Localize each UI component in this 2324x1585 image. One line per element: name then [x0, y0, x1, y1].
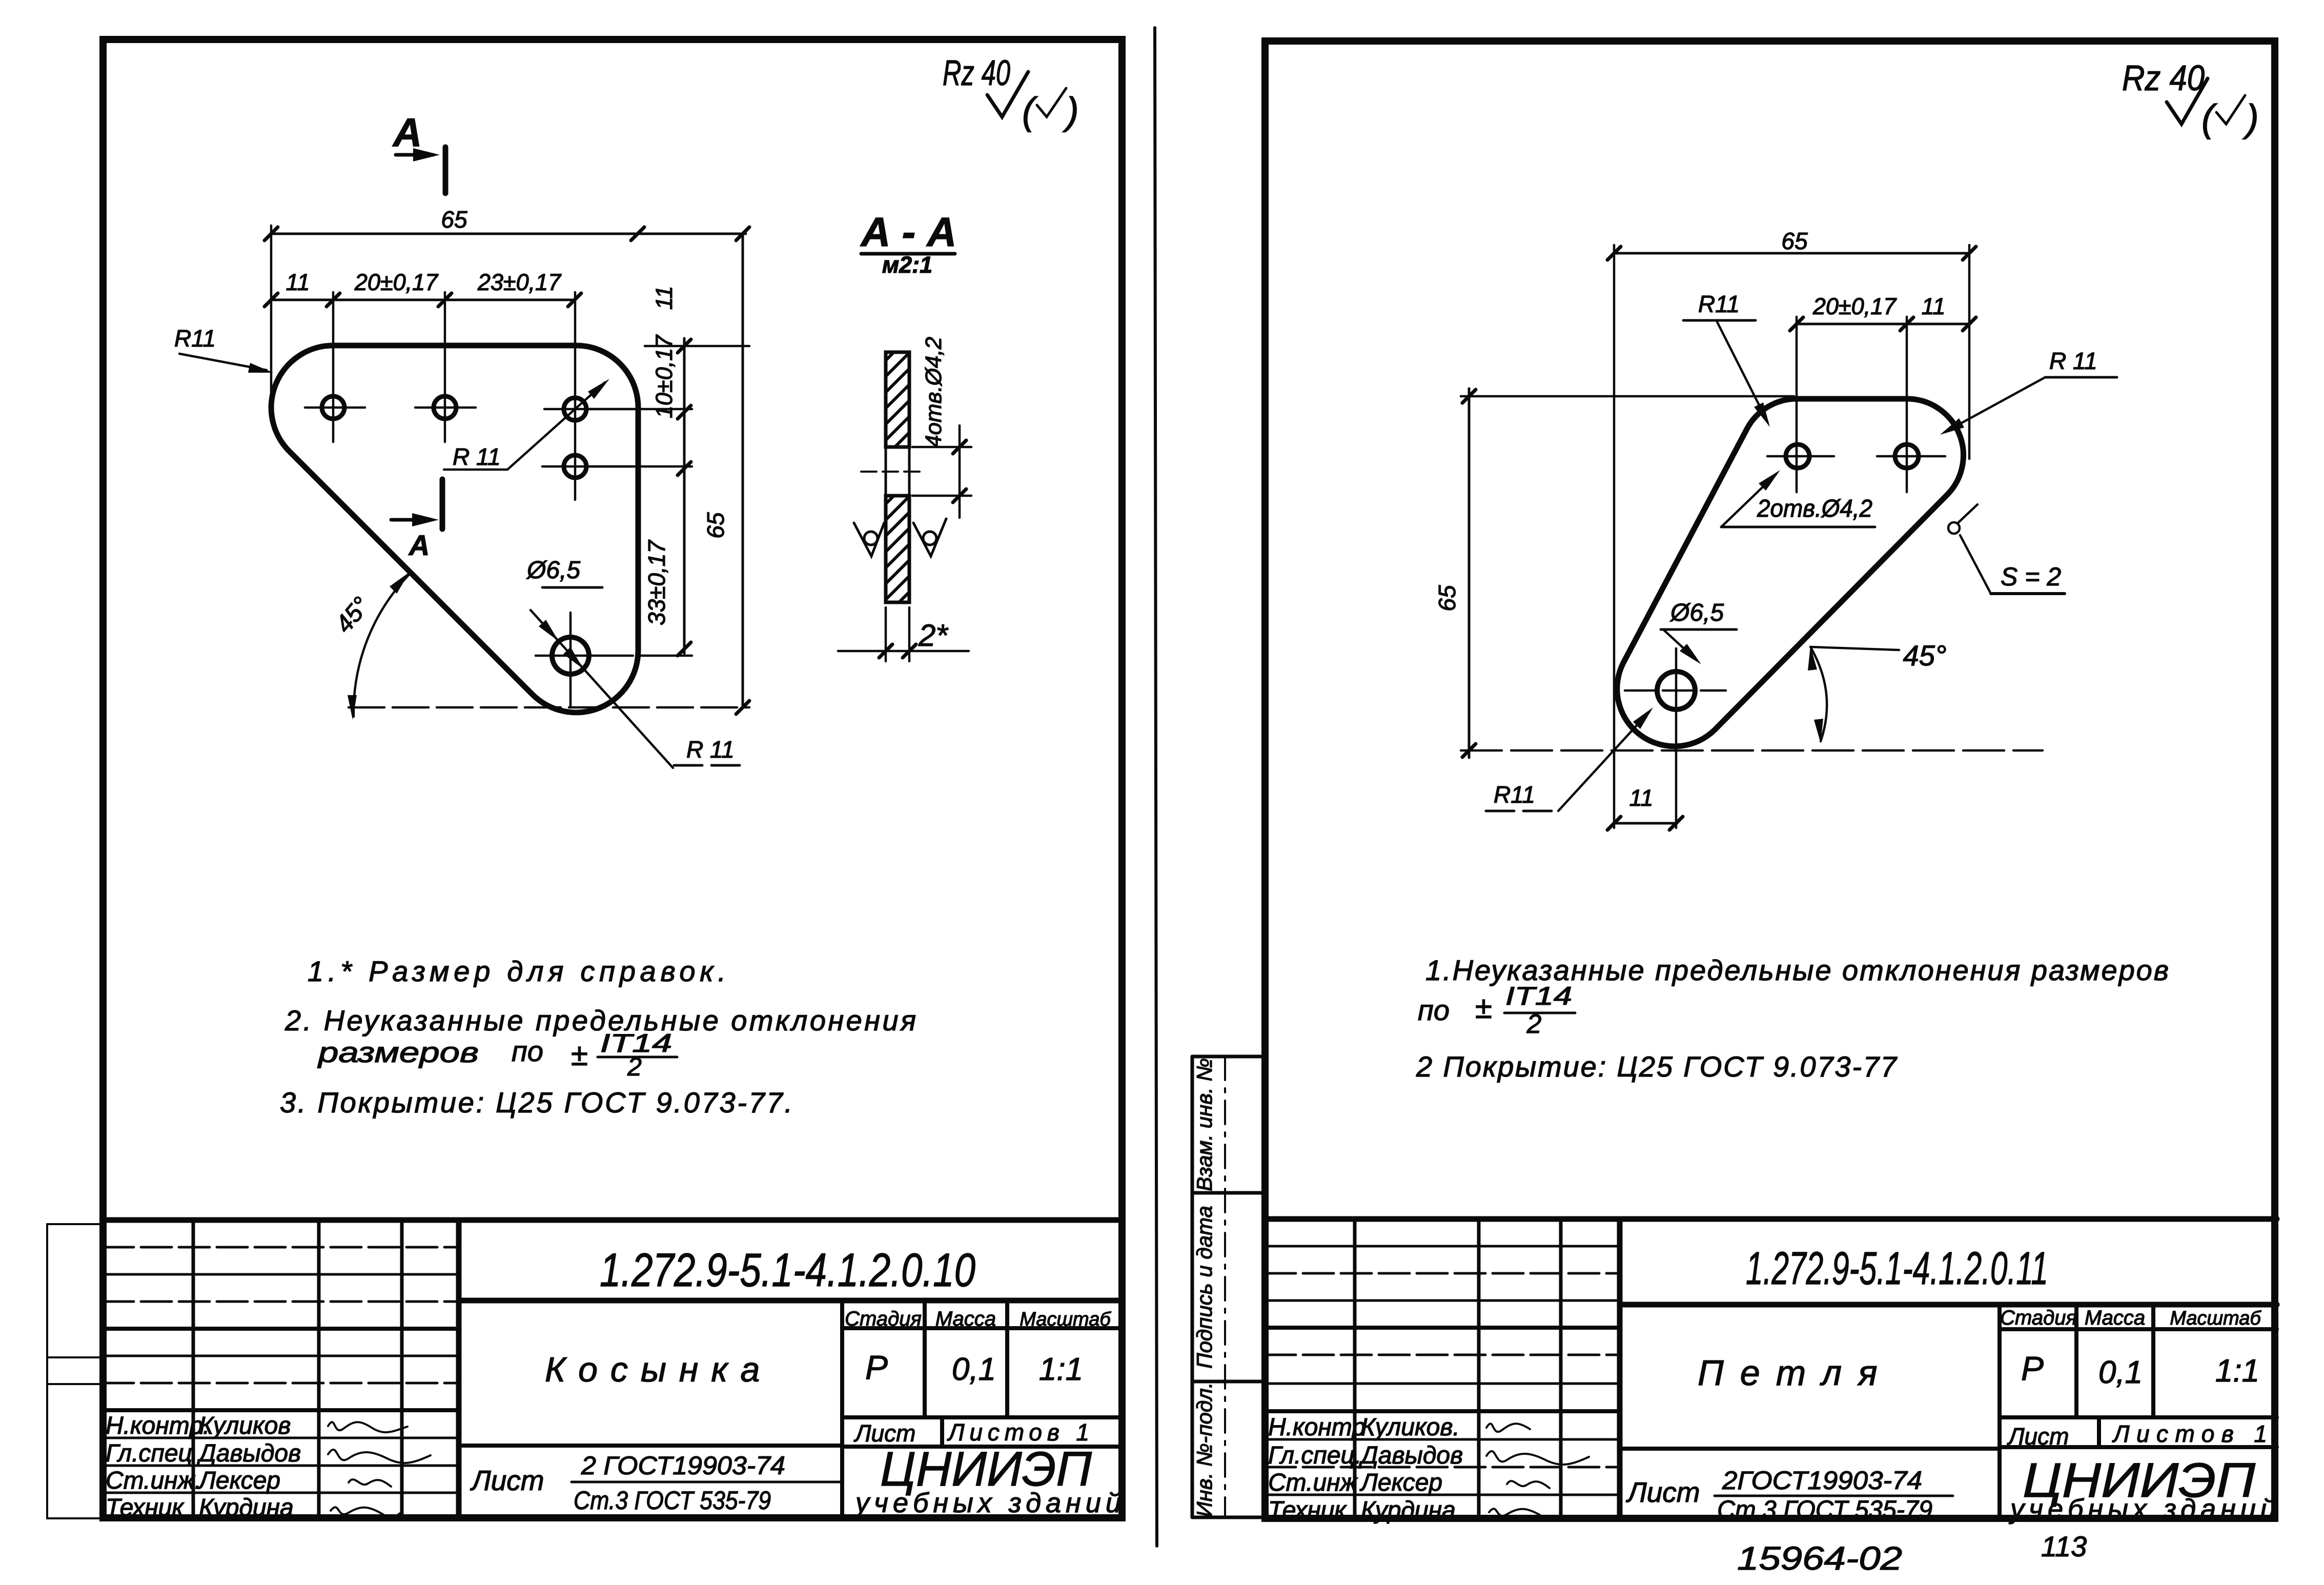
svg-text:2: 2 — [1526, 1009, 1542, 1039]
right vertical dim line 11/10/33 — [678, 338, 691, 656]
svg-text:Курдина: Курдина — [199, 1494, 294, 1521]
sheet 2 side stamp boxes — [1192, 1056, 1262, 1517]
sheet 2 leader dia 6.5 — [1664, 631, 1697, 660]
section arrow A bottom — [391, 479, 442, 529]
hinge holes centerlines — [1625, 456, 1945, 828]
svg-text:Масштаб: Масштаб — [1020, 1309, 1111, 1330]
sheet 1 signature 1 — [328, 1422, 407, 1432]
sheet 2 designation cell bottom line — [1620, 1302, 2277, 1308]
svg-text:±: ± — [1475, 990, 1492, 1025]
right vertical dim 65 line — [736, 227, 749, 714]
svg-text:Ст.3 ГОСТ 535-79: Ст.3 ГОСТ 535-79 — [1717, 1495, 1932, 1524]
dim row 11 20 23: dimension line — [264, 293, 581, 307]
svg-text:2 ГОСТ19903-74: 2 ГОСТ19903-74 — [581, 1451, 785, 1480]
svg-text:113: 113 — [2041, 1530, 2087, 1562]
check mark big sheet 1 — [987, 72, 1028, 117]
svg-text:Р: Р — [2021, 1349, 2044, 1387]
sheet 1 stadia/massa/masshtab cells — [459, 1300, 1122, 1518]
thickness 2* dim ext lines — [838, 607, 969, 661]
svg-text:Лист: Лист — [470, 1465, 544, 1496]
svg-text:Н.контр: Н.контр — [1268, 1414, 1365, 1441]
check mark big sheet 2 — [2167, 78, 2208, 124]
svg-text:Ст.3 ГОСТ 535-79: Ст.3 ГОСТ 535-79 — [574, 1486, 771, 1515]
section bar hatched bottom part — [886, 496, 909, 602]
big hole 6.5 — [552, 637, 589, 674]
svg-text:Косынка: Косынка — [545, 1350, 772, 1389]
svg-text:м2:1: м2:1 — [882, 252, 932, 278]
section bar hatched top part — [886, 352, 909, 447]
svg-text:65: 65 — [1781, 228, 1808, 254]
svg-text:Петля: Петля — [1698, 1353, 1894, 1393]
surface finish mark left of bar — [854, 523, 884, 556]
sheet 2 45 degree angle arc — [1810, 647, 1827, 741]
svg-text:1:1: 1:1 — [1039, 1352, 1083, 1387]
sheet 1 left margin marks — [47, 1224, 100, 1518]
sheet 2 leader R11 top left — [1717, 322, 1767, 421]
svg-text:2отв.Ø4,2: 2отв.Ø4,2 — [1757, 495, 1872, 522]
svg-text:20±0,17: 20±0,17 — [1812, 293, 1897, 319]
extension lines right dims — [349, 346, 749, 707]
centerlines of holes — [305, 408, 633, 707]
svg-text:R11: R11 — [1494, 781, 1535, 808]
svg-text:S = 2: S = 2 — [2001, 562, 2061, 591]
svg-text:по: по — [512, 1035, 543, 1067]
svg-text:Ø6,5: Ø6,5 — [526, 557, 580, 584]
45 degree angle arc — [354, 575, 409, 717]
sheet 2 underline R11 top right — [2045, 376, 2117, 379]
svg-text:): ) — [2242, 97, 2259, 139]
sheet 1 frame — [103, 39, 1122, 1518]
sheet 2 material fraction bar — [1715, 1495, 1953, 1497]
sheet 2 leader R11 top right — [1945, 377, 2045, 432]
svg-text:65: 65 — [702, 512, 729, 539]
sheet 1 signature 2 — [328, 1450, 431, 1463]
svg-text:20±0,17: 20±0,17 — [354, 269, 439, 295]
svg-text:Н.контр.: Н.контр. — [106, 1412, 210, 1439]
sheet 2 stamp column lines — [1355, 1219, 1561, 1518]
sheet 2 stadia/massa/masshtab cells — [1620, 1305, 2277, 1518]
svg-text:Масса: Масса — [935, 1308, 996, 1330]
sheet 1 title block top line — [103, 1217, 1122, 1223]
underline R11 bottom — [674, 764, 746, 767]
sheet 1 stamp column lines — [193, 1220, 402, 1518]
svg-text:2: 2 — [627, 1052, 642, 1081]
sheet 2 45 degree leader — [1810, 647, 1899, 650]
sheet 2 underline R11 bottom left — [1486, 810, 1558, 812]
svg-text:Куликов: Куликов — [199, 1412, 291, 1439]
svg-text:Лист: Лист — [1626, 1476, 1700, 1508]
hole 3 — [564, 398, 586, 420]
sheet 2 leader 2otv — [1721, 474, 1776, 527]
svg-text:1.272.9-5.1-4.1.2.0.10: 1.272.9-5.1-4.1.2.0.10 — [600, 1244, 975, 1296]
hole 4 — [564, 455, 586, 478]
svg-text:11: 11 — [286, 269, 310, 295]
sheet 2 signature 4 — [1489, 1509, 1540, 1516]
svg-text:(: ( — [1022, 90, 1038, 132]
gusset plate outline — [271, 346, 638, 713]
svg-text:Листов 1: Листов 1 — [2112, 1420, 2267, 1447]
svg-text:45°: 45° — [1903, 639, 1947, 672]
section hole centerline — [861, 471, 926, 473]
hinge plate outline — [1617, 399, 1964, 746]
svg-text:R11: R11 — [1698, 291, 1740, 317]
svg-text:R 11: R 11 — [453, 443, 501, 470]
svg-text:33±0,17: 33±0,17 — [643, 540, 670, 625]
sheet 2 underline R11 top left — [1683, 319, 1756, 322]
sheet 1 designation cell bottom line — [459, 1298, 1122, 1304]
svg-text:2 Покрытие: Ц25 ГОСТ 9.073-7: 2 Покрытие: Ц25 ГОСТ 9.073-77 — [1416, 1050, 1898, 1083]
svg-text:размеров: размеров — [317, 1036, 479, 1068]
svg-text:1.* Размер для справок.: 1.* Размер для справок. — [308, 955, 726, 987]
leader R11 top left — [179, 354, 267, 370]
sheet 1 signature 3 — [349, 1479, 391, 1487]
sheet 2 frame — [1265, 41, 2275, 1518]
svg-text:учебных зданий: учебных зданий — [2008, 1494, 2280, 1525]
sheet 2 title block main vertical — [1617, 1219, 1623, 1518]
sheet 2 signature 3 — [1507, 1481, 1550, 1488]
svg-text:15964-02: 15964-02 — [1737, 1540, 1902, 1577]
svg-text:Курдина: Курдина — [1361, 1497, 1456, 1524]
svg-text:Масштаб: Масштаб — [2170, 1308, 2261, 1329]
svg-text:Инв. №-подл.: Инв. №-подл. — [1192, 1383, 1216, 1517]
sheet 1 stamp row lines — [103, 1247, 459, 1493]
svg-text:Rz 40: Rz 40 — [943, 53, 1010, 93]
svg-text:1:1: 1:1 — [2215, 1353, 2259, 1389]
svg-text:Р: Р — [865, 1348, 888, 1386]
svg-text:2ГОСТ19903-74: 2ГОСТ19903-74 — [1722, 1466, 1922, 1495]
svg-text:Масса: Масса — [2085, 1307, 2145, 1329]
svg-text:Взам. инв. №: Взам. инв. № — [1192, 1058, 1216, 1191]
section arrow A top — [396, 147, 445, 193]
sheet 2 leader R11 bottom left — [1558, 712, 1649, 811]
svg-text:Лист: Лист — [2007, 1423, 2069, 1450]
hole 1 — [322, 396, 344, 419]
sheet 2 underline S=2 — [1991, 592, 2065, 595]
svg-text:R 11: R 11 — [686, 736, 735, 763]
svg-text:): ) — [1062, 90, 1079, 132]
hole 2 — [434, 396, 456, 419]
leader dia 6.5 / R11 bottom diagonal — [531, 610, 673, 768]
svg-text:3. Покрытие: Ц25 ГОСТ 9.073-: 3. Покрытие: Ц25 ГОСТ 9.073-77. — [280, 1086, 792, 1119]
sheet 2 left dim 65 vertical — [1462, 389, 1476, 758]
section hole dim ext lines — [912, 425, 971, 518]
svg-text:Rz 40: Rz 40 — [2122, 58, 2205, 98]
svg-text:Гл.спец.: Гл.спец. — [1268, 1442, 1361, 1469]
hinge hole A — [1786, 444, 1809, 468]
svg-text:65: 65 — [441, 206, 467, 233]
svg-text:1.272.9-5.1-4.1.2.0.11: 1.272.9-5.1-4.1.2.0.11 — [1746, 1243, 2048, 1294]
svg-text:2*: 2* — [918, 618, 948, 653]
svg-text:Стадия: Стадия — [845, 1308, 922, 1330]
svg-text:(: ( — [2201, 97, 2217, 139]
svg-text:Гл.спец: Гл.спец — [106, 1440, 192, 1467]
sheet 2 title block top line — [1265, 1216, 2277, 1222]
svg-text:±: ± — [571, 1038, 588, 1072]
hinge big hole 6.5 — [1657, 672, 1695, 709]
svg-text:0,1: 0,1 — [952, 1352, 996, 1387]
svg-text:11: 11 — [651, 286, 677, 310]
page divider between scanned sheets — [1155, 28, 1157, 1546]
sheet 2 underline 2otv — [1721, 526, 1875, 529]
sheet 2 signature 1 — [1486, 1424, 1530, 1432]
underline dia 6.5 — [542, 586, 602, 589]
extension lines top dims — [271, 226, 575, 500]
svg-text:А: А — [392, 110, 422, 155]
svg-text:11: 11 — [1629, 785, 1654, 811]
surface finish mark right of bar — [913, 519, 946, 556]
svg-text:R 11: R 11 — [2049, 348, 2097, 374]
svg-text:45°: 45° — [330, 592, 375, 638]
sheet 2 underline dia 6.5 — [1661, 628, 1737, 631]
svg-text:IT14: IT14 — [1505, 982, 1572, 1010]
leader R11 middle — [444, 382, 605, 470]
svg-text:Куликов.: Куликов. — [1361, 1414, 1460, 1441]
svg-text:Стадия: Стадия — [2000, 1307, 2077, 1329]
svg-text:23±0,17: 23±0,17 — [477, 269, 562, 295]
svg-text:Ст.инж.: Ст.инж. — [106, 1467, 201, 1494]
dim 65 top: dimension line — [264, 227, 746, 240]
sheet 2 horizontal extension lines — [1461, 396, 2043, 750]
svg-text:по: по — [1418, 994, 1450, 1026]
svg-text:Ст.инж: Ст.инж — [1268, 1469, 1358, 1496]
sheet 2 bottom dim 11 — [1607, 817, 1683, 830]
sheet 1 title block main vertical — [456, 1220, 462, 1518]
svg-text:Техник: Техник — [1268, 1497, 1347, 1524]
svg-text:4отв.Ø4,2: 4отв.Ø4,2 — [921, 337, 946, 448]
svg-text:А: А — [408, 529, 430, 561]
sheet 2 leader S=2 — [1960, 535, 1991, 594]
svg-text:11: 11 — [1922, 293, 1946, 319]
svg-text:Техник: Техник — [106, 1494, 185, 1521]
section bar hole gap edges — [886, 447, 909, 496]
sheet 1 signature 4 — [331, 1507, 402, 1518]
svg-text:Ø6,5: Ø6,5 — [1669, 599, 1724, 626]
svg-text:А - А: А - А — [860, 209, 957, 255]
hinge hole B — [1895, 444, 1919, 468]
sheet 2 stamp row lines — [1265, 1246, 1620, 1495]
svg-text:Подпись и дата: Подпись и дата — [1192, 1206, 1216, 1369]
svg-text:0,1: 0,1 — [2098, 1355, 2143, 1390]
sheet 2 dim row 20 11: dimension line — [1790, 317, 1976, 331]
svg-text:R11: R11 — [174, 325, 216, 352]
svg-text:65: 65 — [1434, 585, 1460, 612]
sheet 1 material fraction bar — [572, 1481, 841, 1484]
svg-text:учебных зданий: учебных зданий — [853, 1488, 1126, 1518]
svg-text:Лексер: Лексер — [1359, 1469, 1442, 1496]
sheet 2 dim 65 top: dimension line — [1607, 247, 1976, 260]
sheet 2 signature 2 — [1486, 1451, 1589, 1465]
svg-text:Давыдов: Давыдов — [196, 1440, 301, 1467]
svg-text:Лексер: Лексер — [197, 1467, 280, 1494]
sheet 2 surface mark circle — [1948, 522, 1960, 534]
svg-text:Давыдов: Давыдов — [1358, 1442, 1463, 1469]
underline A-A — [861, 252, 955, 256]
sheet 2 extension lines vertical — [1614, 245, 1969, 828]
